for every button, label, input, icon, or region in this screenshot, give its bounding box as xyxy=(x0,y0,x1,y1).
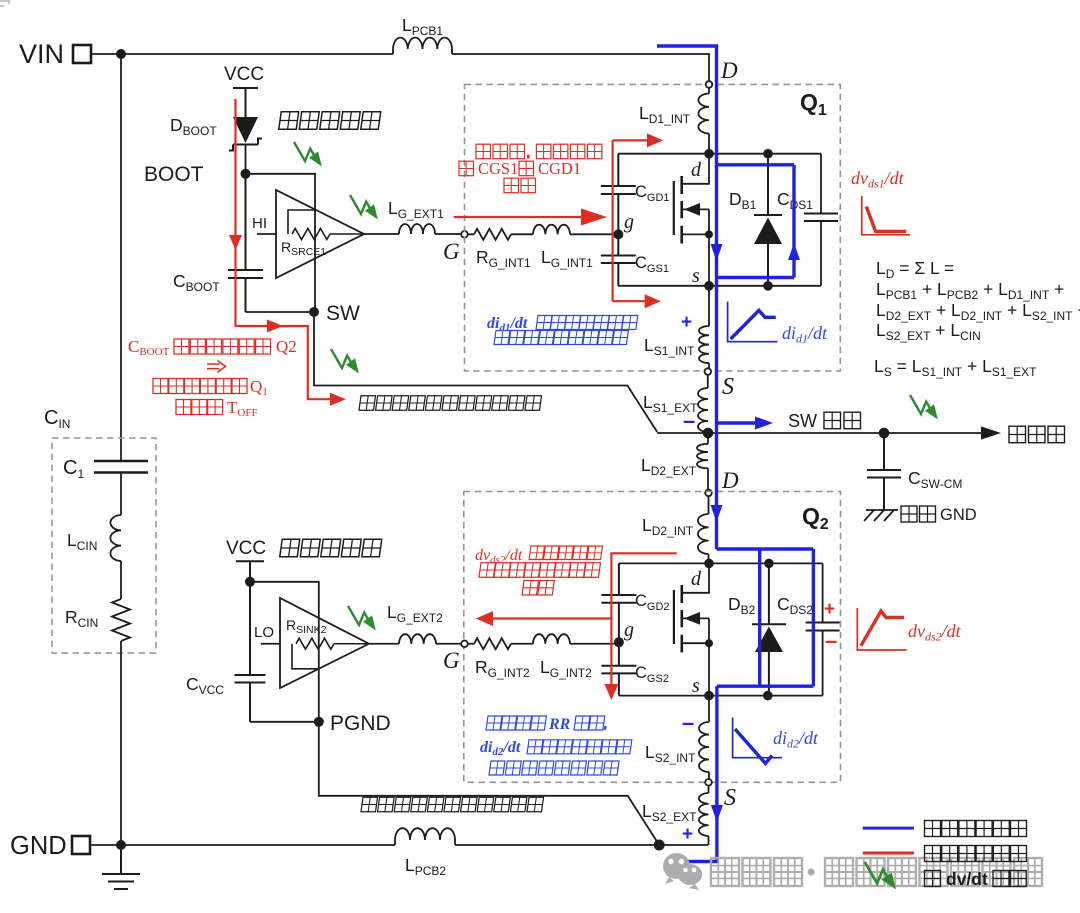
arrow to inductor xyxy=(981,426,1001,439)
wire VCC2 rail xyxy=(250,582,319,722)
wire red Q1 gate drive xyxy=(454,216,581,218)
node G high side xyxy=(461,231,468,238)
waveform dvds2/dt xyxy=(857,608,961,650)
wire blue power loop main xyxy=(657,46,717,166)
node s2 xyxy=(704,691,714,701)
svg-text:+: + xyxy=(824,599,835,620)
inductor LD1_INT xyxy=(639,88,709,154)
wire red Q2 cap loop xyxy=(493,553,677,691)
inductor LG_INT2 xyxy=(533,634,592,680)
node DB2 top xyxy=(764,559,774,569)
node s1 xyxy=(704,281,714,291)
svg-text:SW: SW xyxy=(788,411,817,431)
resistor RG_INT1 xyxy=(468,229,531,270)
svg-text:d: d xyxy=(691,159,702,181)
svg-text:D: D xyxy=(721,468,739,493)
node D2 xyxy=(705,490,712,497)
wire blue loop Q2 xyxy=(717,549,814,686)
svg-text:VCC: VCC xyxy=(224,64,264,85)
node g2 xyxy=(614,637,624,647)
label red note Q2 dvdt current xyxy=(475,546,602,595)
capacitor CGD2 xyxy=(601,563,669,642)
inductor LS1_EXT xyxy=(643,375,708,433)
inductor LCIN xyxy=(67,515,121,561)
high dv/dt arrow 1 xyxy=(294,142,326,170)
label red note CBOOT refresh xyxy=(128,337,297,419)
svg-text:–: – xyxy=(682,710,694,735)
wire blue main to Q2 xyxy=(715,433,718,549)
wire driver1 output xyxy=(364,233,399,235)
wire driver2 output xyxy=(369,643,399,645)
wire top rail left segment xyxy=(121,53,393,55)
resistor RCIN xyxy=(65,599,130,641)
node VIN junction xyxy=(116,49,126,59)
svg-text:GND: GND xyxy=(10,832,67,860)
node PGND xyxy=(314,717,324,727)
waveform dvds1/dt xyxy=(851,168,910,235)
high dv/dt arrow 4 xyxy=(910,395,942,423)
svg-text:D: D xyxy=(720,58,738,83)
capacitor CGS1 xyxy=(601,234,669,285)
diode DBOOT xyxy=(170,115,262,151)
wire top rail right segment to drain xyxy=(452,54,709,81)
watermark text xyxy=(711,858,1042,886)
capacitor CGS2 xyxy=(601,642,669,695)
diode DB2 xyxy=(728,563,786,695)
arrow blue SW node xyxy=(717,421,758,424)
arrow red Q1 bottom xyxy=(645,294,661,308)
svg-text:VIN: VIN xyxy=(19,39,64,69)
wire red CBOOT refresh path xyxy=(236,99,335,399)
node Q2 drain junction xyxy=(704,559,714,569)
capacitor CSW-CM xyxy=(867,433,962,510)
label chassis GND xyxy=(901,506,977,524)
svg-text:S: S xyxy=(722,374,734,400)
arrow red Q1 gate xyxy=(581,209,607,226)
arrow blue down to Q2 xyxy=(711,505,723,522)
arrow red Q1 top xyxy=(647,133,663,147)
transistor Q1 mosfet symbol xyxy=(674,154,709,287)
label inductance formulas xyxy=(874,258,1080,379)
svg-text:CGS1: CGS1 xyxy=(478,159,518,178)
node SW rail junction xyxy=(703,428,714,439)
node D1 xyxy=(706,81,713,88)
wire LG_INT2 to g2 xyxy=(570,643,619,645)
label kelvin connection 1 xyxy=(359,396,542,411)
legend power loop current xyxy=(863,821,1027,837)
arrow red right CBOOT path xyxy=(267,320,283,333)
svg-text:SW: SW xyxy=(326,302,360,325)
node DB1 bottom xyxy=(763,281,773,291)
capacitor CDS2 xyxy=(777,594,840,631)
high dv/dt arrow 3 xyxy=(331,349,363,377)
resistor RSRCE1 xyxy=(281,210,364,258)
op-amp high side driver U1 xyxy=(252,190,364,278)
svg-text:+: + xyxy=(682,824,693,845)
wire VIN to top rail xyxy=(91,53,121,55)
arrow blue down source exit xyxy=(711,805,723,822)
node Q1 drain junction xyxy=(704,149,714,159)
svg-text:dv/dt: dv/dt xyxy=(946,869,988,889)
wire blue loop Q1 xyxy=(717,165,795,433)
capacitor CVCC xyxy=(186,582,266,722)
diode DB1 xyxy=(729,154,782,286)
ground symbol xyxy=(102,845,140,889)
svg-text:S: S xyxy=(724,785,736,811)
waveform did1/dt xyxy=(728,302,828,346)
inductor LG_INT1 xyxy=(533,225,593,270)
arrow red Q2 left xyxy=(476,611,493,626)
mosfet Q2 cell box xyxy=(619,563,823,695)
label kelvin connection 2 xyxy=(361,797,544,812)
node GND junction xyxy=(116,840,126,850)
inductor LS2_EXT xyxy=(642,786,709,845)
terminal VIN xyxy=(19,39,91,69)
wire left rail lower xyxy=(120,641,122,845)
svg-text:LO: LO xyxy=(254,624,274,641)
wire blue Q2 source exit xyxy=(680,686,717,861)
wire RG_INT2 to LG_INT2 xyxy=(511,643,533,645)
high dv/dt arrow 5 xyxy=(348,606,380,634)
arrow red Q2 down xyxy=(604,684,618,700)
watermark wechat icon xyxy=(663,853,702,890)
svg-text:s: s xyxy=(692,675,700,697)
wire LG_INT1 to g1 xyxy=(570,233,618,235)
wire SW rail xyxy=(657,432,981,434)
svg-text:GND: GND xyxy=(940,506,977,524)
op-amp low side driver U2 xyxy=(254,598,369,688)
power VCC low side xyxy=(226,538,266,582)
svg-text:Q2: Q2 xyxy=(276,337,297,356)
svg-text:d: d xyxy=(691,568,702,590)
wire bottom rail right segment xyxy=(455,844,708,846)
arrow red into kelvin xyxy=(330,393,346,406)
transistor Q2 mosfet symbol xyxy=(674,563,709,697)
label red note Q1 charge xyxy=(459,144,602,193)
resistor RG_INT2 xyxy=(468,638,530,680)
svg-text:RR: RR xyxy=(548,716,571,733)
label high side driver title xyxy=(279,112,381,130)
dashed box Q1 xyxy=(465,84,841,371)
svg-text:VCC: VCC xyxy=(226,538,266,559)
capacitor C1 xyxy=(63,457,148,481)
wire BOOT to driver rail xyxy=(246,174,316,312)
wire LCIN to RCIN xyxy=(120,561,122,599)
decorative corner mark xyxy=(0,1,9,6)
node DB1 top xyxy=(763,149,773,159)
inductor LG_EXT2 xyxy=(387,602,443,644)
power VCC high side xyxy=(224,64,264,117)
svg-text:G: G xyxy=(443,239,460,264)
node g1 xyxy=(613,229,623,239)
wire red Q1 cap loop xyxy=(613,140,648,301)
label blue note Q2 didt xyxy=(480,716,632,775)
svg-text:s: s xyxy=(692,265,700,287)
inductor LPCB1 xyxy=(393,15,452,54)
inductor LS1_INT xyxy=(644,286,709,368)
wire CVCC to PGND xyxy=(250,721,319,723)
node DB2 bottom xyxy=(763,691,773,701)
svg-text:HI: HI xyxy=(252,215,267,232)
label low side driver title xyxy=(280,539,382,557)
wire bottom rail left segment xyxy=(121,844,395,846)
svg-text:CGD1: CGD1 xyxy=(538,159,581,178)
svg-text:G: G xyxy=(443,648,460,673)
capacitor CDS1 xyxy=(777,189,838,221)
svg-text:PGND: PGND xyxy=(330,712,391,735)
node SW xyxy=(309,307,319,317)
arrow blue down Q1 xyxy=(711,244,723,261)
inductor LD2_EXT xyxy=(641,433,708,489)
wire DBOOT to BOOT node xyxy=(245,145,247,174)
svg-text:–: – xyxy=(825,628,837,653)
label to inductor xyxy=(1009,426,1065,443)
wire CBOOT to SW node xyxy=(246,311,315,313)
svg-text:g: g xyxy=(624,211,634,233)
dashed box CIN xyxy=(52,438,156,653)
node G low side xyxy=(461,641,468,648)
node S1 xyxy=(705,368,712,375)
terminal GND xyxy=(10,832,90,860)
inductor LS2_INT xyxy=(645,696,709,779)
dashed box Q2 xyxy=(464,492,841,783)
capacitor CBOOT xyxy=(173,174,263,312)
resistor RSINK2 xyxy=(286,617,369,669)
arrow red down DBOOT xyxy=(229,235,242,250)
inductor LPCB2 xyxy=(395,828,455,878)
mosfet Q1 cell box xyxy=(618,154,821,286)
capacitor CGD1 xyxy=(601,154,670,235)
wire LG_EXT1 to G xyxy=(435,233,461,235)
legend gate drive current xyxy=(863,846,1027,862)
wire kelvin source connection Q1 xyxy=(314,312,657,432)
waveform did2/dt xyxy=(733,718,819,764)
inductor LG_EXT1 xyxy=(388,198,444,234)
wire kelvin source connection Q2 xyxy=(319,722,659,845)
node Q1 source internal junction xyxy=(705,230,713,238)
chassis ground symbol xyxy=(864,510,898,521)
high dv/dt arrow 2 xyxy=(350,195,382,223)
wire LG_EXT2 to G2 xyxy=(436,643,461,645)
svg-text:+: + xyxy=(681,312,692,333)
inductor LD2_INT xyxy=(642,497,709,564)
node kelvin2 junction xyxy=(654,840,665,851)
wire C1 to LCIN xyxy=(120,473,122,516)
svg-text:–: – xyxy=(683,408,695,433)
node S2 xyxy=(705,779,712,786)
label blue note Q1 didt xyxy=(487,315,638,345)
wire RG_INT1 to LG_INT1 xyxy=(511,233,533,235)
svg-text:g: g xyxy=(624,619,634,641)
node VCC2 junction xyxy=(245,577,255,587)
node CSW junction xyxy=(879,428,890,439)
wire left rail upper xyxy=(120,54,122,461)
arrow blue up Q1 xyxy=(788,243,800,260)
node BOOT xyxy=(241,169,251,179)
label SW node xyxy=(788,411,861,431)
svg-text:BOOT: BOOT xyxy=(144,163,204,186)
wire GND to junction xyxy=(90,844,121,846)
node Q2 source internal junction xyxy=(705,639,713,647)
legend high dvdt node xyxy=(865,862,1026,893)
